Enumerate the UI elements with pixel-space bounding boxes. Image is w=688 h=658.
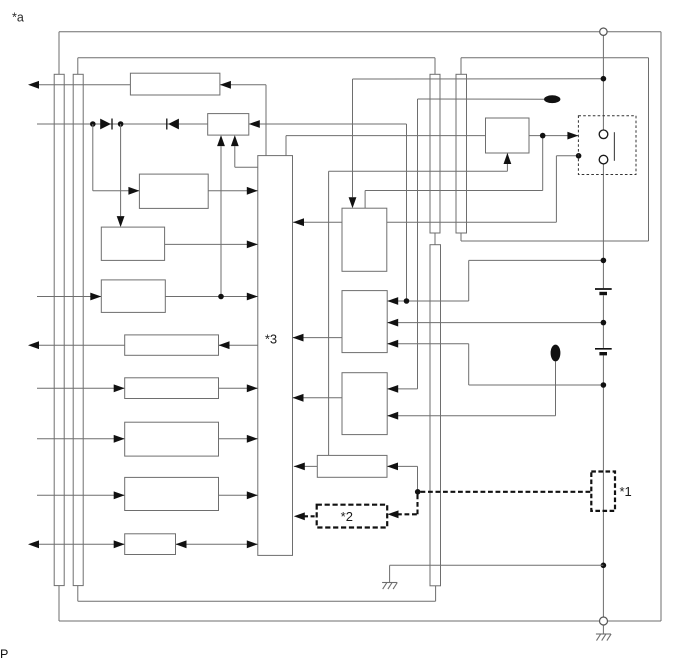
svg-text:*a: *a bbox=[12, 10, 24, 24]
svg-text:*3: *3 bbox=[265, 332, 277, 347]
svg-text:*1: *1 bbox=[620, 484, 632, 499]
svg-text:*2: *2 bbox=[341, 509, 353, 524]
svg-text:P: P bbox=[0, 648, 8, 658]
